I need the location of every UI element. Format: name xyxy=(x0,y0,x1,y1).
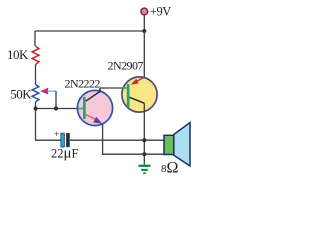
wire left rail upper xyxy=(34,31,36,46)
speaker LS1 cone xyxy=(174,123,190,167)
svg-text:50K: 50K xyxy=(10,86,32,101)
Q1 emitter arrowhead xyxy=(93,117,102,124)
svg-text:+: + xyxy=(54,129,59,139)
battery terminal +9V xyxy=(141,8,148,15)
node pot bottom xyxy=(34,106,38,110)
wire +9V rail down to Q2 emitter xyxy=(143,31,145,77)
capacitor C1 right plate xyxy=(66,133,69,147)
resistor R1 10K xyxy=(32,46,39,64)
node speaker bottom wire / ground xyxy=(142,152,146,156)
wire wiper cyan xyxy=(48,90,57,92)
node junction top xyxy=(142,29,146,33)
svg-text:2N2907: 2N2907 xyxy=(108,59,144,73)
Q1 emitter lead xyxy=(86,115,96,120)
transistor Q1 2N2222 body xyxy=(77,90,112,125)
wire Q2 collector rail down to ground xyxy=(143,103,145,165)
wire top rail xyxy=(35,30,144,32)
wire Q1 collector to Q2 base xyxy=(100,87,124,89)
speaker LS1 frame xyxy=(164,135,174,154)
transistor Q2 2N2907 body xyxy=(122,77,157,112)
wire terminal to junction xyxy=(143,15,145,31)
wire wiper down xyxy=(55,91,57,108)
wire Q1 emitter down xyxy=(103,124,165,154)
svg-text:22μF: 22μF xyxy=(51,146,79,162)
node wiper join xyxy=(54,106,58,110)
wire cap to speaker (passes emitter wire) xyxy=(70,139,165,141)
wire between R1 and R2 xyxy=(35,65,37,85)
potentiometer R2 50K xyxy=(32,85,39,103)
wiper arrow of R2 xyxy=(40,88,48,95)
svg-text:2N2222: 2N2222 xyxy=(65,77,101,91)
wire left rail lower xyxy=(35,102,61,140)
Q2 emitter lead with arrow xyxy=(137,77,145,81)
svg-text:+9V: +9V xyxy=(150,4,171,18)
svg-text:10K: 10K xyxy=(7,47,29,62)
wire pot node to Q1 base xyxy=(36,108,79,110)
Q2 base bar xyxy=(127,84,130,107)
Q1 base lead xyxy=(78,108,84,110)
Q2 base lead xyxy=(122,87,127,89)
ground xyxy=(139,166,151,173)
Q1 collector lead xyxy=(86,88,100,101)
svg-text:Ω: Ω xyxy=(167,160,179,177)
Q1 base bar xyxy=(83,97,86,119)
node speaker top wire xyxy=(142,138,146,142)
Q2 collector lead xyxy=(129,97,144,103)
capacitor C1 left plate xyxy=(61,133,64,147)
Q2 emitter arrowhead xyxy=(131,79,139,85)
